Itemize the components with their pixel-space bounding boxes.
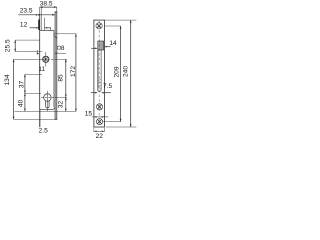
faceplate top cap: [55, 11, 57, 13]
svg-text:32: 32: [57, 101, 64, 109]
euro cylinder profile: [44, 94, 52, 108]
svg-text:172: 172: [70, 66, 77, 77]
rod channel wall: [40, 8, 42, 31]
lock case top: [40, 29, 54, 31]
rod channel front wall: [43, 18, 45, 31]
faceplate bottom cap: [55, 118, 57, 120]
rod channel thick bar: [38, 20, 40, 31]
dim 209 vertical: [105, 26, 122, 122]
lock case bottom with fillet: [40, 107, 55, 109]
dim 85 and 32 chained vertical: [65, 59, 67, 111]
cylinder fixing hole: [96, 104, 102, 110]
svg-text:11: 11: [38, 66, 45, 73]
dim 2.5 faceplate thickness: [39, 109, 41, 127]
svg-text:25.5: 25.5: [4, 39, 11, 52]
svg-text:85: 85: [58, 74, 65, 82]
euro cylinder centerline horizontal: [41, 96, 67, 98]
svg-text:38.5: 38.5: [40, 1, 53, 8]
dim 15 line: [92, 116, 109, 118]
svg-text:40: 40: [18, 99, 25, 107]
lock case back: [39, 15, 41, 109]
euro cylinder centerline vertical: [46, 91, 48, 112]
svg-text:37: 37: [19, 81, 26, 89]
dim 14 arrows: [91, 46, 110, 49]
svg-text:12: 12: [20, 22, 28, 29]
dim 7.5 arrows: [91, 92, 111, 94]
leader near case back: [37, 50, 40, 55]
dim 23.5 line: [18, 14, 55, 16]
latch cutout hatched: [98, 41, 104, 50]
strike plate centerline: [98, 21, 100, 126]
top screw hole: [96, 23, 102, 29]
dim 22: [94, 127, 105, 132]
svg-text:209: 209: [113, 66, 120, 77]
strike plate outline: [94, 20, 105, 127]
svg-text:14: 14: [109, 40, 117, 47]
dim 134 vertical: [13, 59, 55, 119]
svg-text:2.5: 2.5: [39, 127, 48, 134]
svg-text:15: 15: [85, 110, 93, 117]
faceplate side view front line: [56, 12, 58, 119]
dim 240 vertical: [105, 20, 137, 127]
square 8 symbol and leader: [55, 46, 67, 54]
lock case front: [53, 30, 55, 107]
dim 172 vertical: [54, 34, 77, 112]
dim 12 line: [30, 27, 52, 29]
dim 37 and 50 chained vertical: [24, 74, 42, 111]
faceplate side view back line: [54, 12, 56, 119]
dim 25.5 vertical: [14, 40, 42, 52]
bottom extension line: [15, 110, 76, 112]
long slot: [98, 50, 101, 91]
svg-text:8: 8: [61, 45, 65, 52]
svg-text:134: 134: [4, 74, 11, 85]
follower knurled circle: [42, 56, 49, 63]
svg-text:23.5: 23.5: [20, 7, 33, 14]
svg-text:22: 22: [96, 133, 104, 140]
follower centerline vertical: [45, 52, 47, 67]
follower centerline horizontal: [14, 58, 67, 60]
dim 38.5 line: [40, 6, 57, 15]
bottom screw hole: [96, 119, 121, 125]
svg-text:240: 240: [123, 66, 130, 77]
svg-text:7.5: 7.5: [103, 83, 112, 90]
